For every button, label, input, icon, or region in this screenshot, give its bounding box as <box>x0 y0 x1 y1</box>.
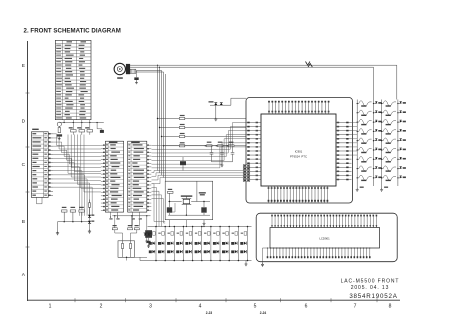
capacitor C923 <box>231 146 235 162</box>
CN901 pin stubs <box>48 133 53 135</box>
wires IC901 into osc box <box>168 203 175 212</box>
ground for caps <box>212 162 233 164</box>
LED column 10 <box>237 227 239 261</box>
wire diode pair to IC box <box>231 98 246 105</box>
resistor R912 <box>160 127 180 129</box>
LED column 2 <box>164 227 166 261</box>
svg-text:2005. 04. 13: 2005. 04. 13 <box>351 285 390 291</box>
wires resistors to bus <box>58 212 90 222</box>
LED D903 <box>88 215 91 218</box>
svg-text:LAC-M5500 FRONT: LAC-M5500 FRONT <box>341 278 400 284</box>
svg-text:8: 8 <box>389 304 392 310</box>
LED grid ground <box>245 261 247 263</box>
bus below P901 table <box>60 122 103 124</box>
connector table CN903 <box>128 141 147 212</box>
connector jack JK901 <box>57 122 61 126</box>
svg-text:2-24: 2-24 <box>260 311 267 315</box>
key switch SB2 <box>382 110 396 115</box>
wires P901 bottom to bus <box>64 120 90 123</box>
ground below R905 <box>58 137 61 140</box>
LCD901 glass body <box>270 228 380 249</box>
resistor array RA902 <box>81 123 83 130</box>
diode D902 <box>220 103 223 105</box>
transistor Q902 <box>129 244 131 249</box>
ground below column B <box>381 186 383 188</box>
long wires to IC lower-left pin boxes <box>152 171 244 173</box>
resistor R942 <box>70 210 76 212</box>
key switch SA6 <box>357 147 371 152</box>
key diode DB2 <box>398 112 401 114</box>
label D901/D902 <box>209 101 214 102</box>
crystal X901 4.5MHz <box>183 199 190 203</box>
capacitor C906 <box>96 123 98 129</box>
LCD bottom pins <box>267 248 269 258</box>
svg-text:IC901: IC901 <box>295 150 303 154</box>
svg-text:7: 7 <box>354 304 357 310</box>
label below R905 <box>57 134 62 136</box>
IC901 left pins <box>247 122 261 124</box>
resistor R941 <box>62 210 68 212</box>
ground below column A <box>356 186 358 188</box>
LED column 7 <box>210 227 212 261</box>
key switch column B bus <box>397 100 399 187</box>
svg-text:1: 1 <box>49 304 52 310</box>
capacitor C921 <box>210 146 214 162</box>
LED column 6 <box>201 227 203 261</box>
key diode DB1 <box>398 103 401 105</box>
key diode DA7 <box>374 158 377 160</box>
key switch SB6 <box>382 147 396 152</box>
oscillator wires <box>168 181 210 215</box>
wire from CN902 to bus <box>110 216 117 218</box>
capacitor C902 <box>167 207 172 212</box>
connector pin-function table P901 <box>55 40 91 119</box>
svg-text:2-23: 2-23 <box>206 311 213 315</box>
resistor R943 <box>79 210 85 212</box>
resistor R946 <box>128 228 133 230</box>
resistor R914 <box>164 145 180 147</box>
key diode DB4 <box>398 130 401 132</box>
ground below diode pair <box>215 105 217 117</box>
IC901 outer shield box <box>246 98 353 204</box>
svg-text:6: 6 <box>305 304 308 310</box>
key switch SA8 <box>357 166 371 171</box>
key diode DA6 <box>374 149 377 151</box>
key switch SA1 <box>357 101 371 106</box>
svg-text:C: C <box>22 162 26 168</box>
key diode DA3 <box>374 121 377 123</box>
LED grid top bus <box>148 226 252 228</box>
wire mesh CN903 to IC901 <box>152 123 248 146</box>
key diode DB5 <box>398 140 401 142</box>
LCD outer box <box>256 213 397 262</box>
IC901 right pins <box>336 122 352 124</box>
resistor array RA901 <box>72 123 74 130</box>
CN903 bottom wires <box>133 212 140 218</box>
IC901 top pins <box>268 101 270 114</box>
svg-text:2: 2 <box>100 304 103 310</box>
key diode DB9 <box>398 177 401 179</box>
svg-text:4: 4 <box>199 304 202 310</box>
frame bottom border line <box>28 299 401 301</box>
key diode DA9 <box>374 177 377 179</box>
resistor R905 <box>58 128 60 133</box>
CN903 pin stubs <box>147 144 152 146</box>
key switch SB1 <box>382 101 396 106</box>
motor terminal block <box>130 69 136 73</box>
diode pair D905 D906 <box>144 232 151 234</box>
svg-text:3: 3 <box>149 304 152 310</box>
IC901 bottom pins <box>268 186 270 203</box>
svg-text:LCD901: LCD901 <box>319 237 330 241</box>
resistor R913 <box>162 136 180 138</box>
resistor R945 <box>112 228 117 230</box>
key diode DA4 <box>374 130 377 132</box>
frame column ticks <box>74 298 76 302</box>
diode D901 <box>210 104 231 106</box>
resistor R931 <box>168 191 174 193</box>
wires from ladder to IC area <box>185 119 246 137</box>
wires CN902/CN903 bottoms to LED bus <box>109 215 111 217</box>
resistor R923 <box>229 145 235 147</box>
svg-text:E: E <box>22 63 25 69</box>
motor label M901 <box>117 77 123 79</box>
resistor R911 <box>158 118 180 120</box>
resistor row wire <box>185 145 246 147</box>
key switch SA5 <box>357 138 371 143</box>
key diode DA8 <box>374 168 377 170</box>
ground below LEDs <box>89 224 91 230</box>
label C904 47P <box>199 192 206 193</box>
osc box stubs to LED bus <box>170 220 187 227</box>
long top wire to key column B <box>158 65 397 99</box>
svg-text:5: 5 <box>254 304 257 310</box>
key diode DA2 <box>374 112 377 114</box>
key switch column A bus <box>373 100 375 187</box>
key diode DB8 <box>398 168 401 170</box>
LED grid bottom bus <box>140 260 252 262</box>
motor brush cap <box>126 64 130 74</box>
resistor R922 <box>218 145 224 147</box>
ground below diode pair <box>145 240 148 243</box>
LED column 11 <box>247 227 249 261</box>
LED D904 <box>88 221 91 224</box>
transistor Q903 <box>180 161 186 165</box>
key switch SA7 <box>357 157 371 162</box>
wire mesh CN901 down <box>53 167 79 216</box>
key diode DB3 <box>398 121 401 123</box>
capacitor C909 at motor <box>135 71 138 77</box>
transistor pair box <box>118 241 135 257</box>
key switch SB9 <box>382 175 396 180</box>
ground below motor cap <box>136 79 138 82</box>
key switch SA4 <box>357 129 371 134</box>
connector table CN902 <box>105 141 123 212</box>
transistor circuit bus <box>112 215 150 217</box>
svg-text:D: D <box>22 119 26 125</box>
wires CN902 upper stubs from top area <box>68 135 101 174</box>
key switch SB7 <box>382 157 396 162</box>
connector table CN901 <box>31 132 48 198</box>
wire mesh CN901 to CN902 <box>53 134 101 145</box>
capacitor C922 <box>220 146 224 162</box>
resistor R944 <box>88 203 90 208</box>
key diode DB7 <box>398 158 401 160</box>
LCD ground stub <box>263 248 271 263</box>
key diode DA1 <box>374 103 377 105</box>
photo sensor D971 <box>145 230 152 238</box>
frame left border line <box>27 41 29 301</box>
key switch SB3 <box>382 119 396 124</box>
resistor R921 <box>207 145 213 147</box>
LCD top pins <box>271 215 273 227</box>
svg-text:3854R19052A: 3854R19052A <box>349 293 397 300</box>
LED column 1 <box>155 227 157 261</box>
CN902 bottom wires <box>110 212 117 218</box>
frame row ticks <box>26 92 30 94</box>
key switch SB4 <box>382 129 396 134</box>
svg-text:2. FRONT SCHEMATIC DIAGRAM: 2. FRONT SCHEMATIC DIAGRAM <box>24 27 121 34</box>
IC901 lower-left pin boxes <box>243 165 250 167</box>
key switch SB8 <box>382 166 396 171</box>
key switch column B rail <box>381 100 383 187</box>
LED column 8 <box>219 227 221 261</box>
IC901 chip body <box>261 114 336 186</box>
key switch SA9 <box>357 175 371 180</box>
resistor array RA903 <box>89 123 91 130</box>
LED column 5 <box>192 227 194 261</box>
LED column 9 <box>228 227 230 261</box>
key diode DB6 <box>398 149 401 151</box>
key switch SA2 <box>357 110 371 115</box>
svg-text:PT6524 PTC: PT6524 PTC <box>290 155 307 159</box>
CN902 pin stubs <box>101 144 106 146</box>
wire crossing symbol <box>306 61 313 67</box>
key diode DA5 <box>374 140 377 142</box>
LED column 4 <box>182 227 184 261</box>
key switch SA3 <box>357 119 371 124</box>
ground below oscillator <box>203 220 205 222</box>
LED column 3 <box>173 227 175 261</box>
ground left band <box>57 222 59 232</box>
transistor Q901 <box>121 244 123 249</box>
wires CN903 stubs down to LED bus <box>152 184 166 222</box>
capacitor C903 <box>201 207 206 212</box>
resistor R947 <box>134 228 139 230</box>
key switch column A rail <box>356 100 358 187</box>
motor M901 body <box>114 63 125 74</box>
key switch SB5 <box>382 138 396 143</box>
transistor circuit wires <box>115 216 147 261</box>
long top wire to key column A <box>160 67 374 99</box>
wires bus area down to mesh <box>73 132 90 135</box>
svg-text:B: B <box>22 219 25 225</box>
wires IC901 right pins to key rail <box>352 122 358 124</box>
vertical wire bundle <box>157 65 159 170</box>
wire motor terminal to bundle <box>130 65 163 72</box>
CN901 bottom stubs <box>37 197 43 203</box>
oscillator circuit box <box>165 181 213 220</box>
